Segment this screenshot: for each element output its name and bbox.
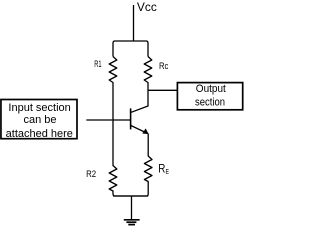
svg-text:Input section: Input section [8, 102, 70, 114]
svg-text:R: R [158, 163, 165, 176]
svg-text:R1: R1 [94, 59, 101, 69]
svg-text:can be: can be [23, 114, 56, 126]
svg-text:Output: Output [196, 83, 226, 95]
svg-text:Vcc: Vcc [137, 0, 157, 14]
svg-text:R2: R2 [86, 169, 96, 179]
svg-text:section: section [195, 96, 225, 108]
svg-text:attached here: attached here [6, 128, 73, 140]
svg-text:E: E [166, 167, 170, 176]
svg-text:Rc: Rc [159, 61, 169, 71]
